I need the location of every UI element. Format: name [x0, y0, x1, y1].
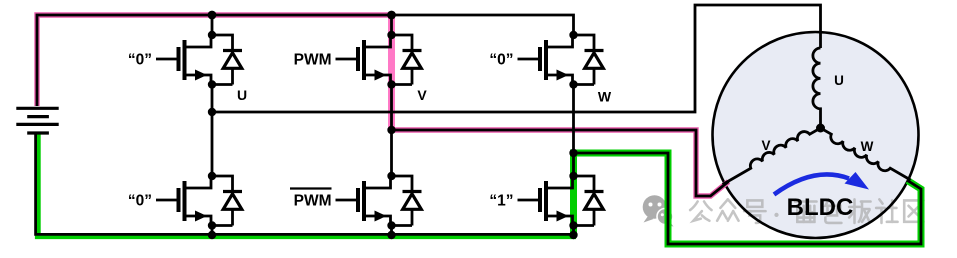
- body diode of Q6: cathode link: [574, 176, 595, 192]
- Q1 channel bar: [183, 40, 187, 80]
- Q4 source connection: [364, 216, 391, 226]
- transistor Q6 W low-side, gate "1": [518, 176, 604, 226]
- svg-text:“1”: “1”: [489, 193, 513, 210]
- Q6 drain node dot: [569, 172, 577, 180]
- node U junction dot: [208, 108, 216, 116]
- watermark text 公众号：面包板社区 (drawn as vector strokes): [690, 199, 923, 223]
- body diode of Q3: cathode link: [392, 35, 413, 51]
- junction dots on negative rail: [208, 231, 216, 239]
- svg-text:“0”: “0”: [128, 193, 152, 210]
- winding W (motor): [821, 128, 911, 180]
- Q1 gate bar: [177, 47, 181, 71]
- battery B1 plates: [16, 108, 58, 133]
- svg-text:W: W: [598, 89, 612, 105]
- body diode of Q1: anode link: [231, 70, 234, 85]
- svg-text:V: V: [761, 138, 770, 153]
- rotation arrow: [774, 174, 849, 194]
- Q4 gate lead: [336, 199, 360, 202]
- wire: motor W winding return: [574, 153, 922, 244]
- Q3 gate lead: [336, 58, 360, 61]
- highlighted current path (pink): battery+ to V phase winding: [37, 15, 392, 106]
- body diode of Q5: triangle: [585, 53, 604, 69]
- Q1 source connection: [185, 75, 212, 85]
- transistor Q5 W high-side, gate "0": [518, 35, 604, 85]
- body diode of Q5: cathode link: [574, 35, 595, 51]
- Q3 gate bar: [356, 47, 360, 71]
- Q5 drain connection: [546, 35, 573, 47]
- body diode of Q6: anode link: [593, 211, 596, 226]
- body diode of Q3: triangle: [403, 53, 422, 69]
- wire: U phase line to motor U winding: [212, 5, 821, 112]
- body diode of Q4: anode link: [411, 211, 414, 226]
- Q2 source node dot: [208, 221, 216, 229]
- body diode of Q3: anode link: [411, 70, 414, 85]
- Q6 gate lead: [518, 199, 542, 202]
- Q5 gate lead: [518, 58, 542, 61]
- body diode of Q4: triangle: [403, 194, 422, 210]
- motor star point junction: [816, 124, 825, 133]
- Q5 source connection: [546, 75, 573, 85]
- transistor Q3 V high-side, gate PWM: [336, 35, 422, 85]
- Q4 source arrow: [375, 211, 387, 222]
- Q2 channel bar: [183, 181, 187, 221]
- body diode of Q2: cathode link: [212, 176, 233, 192]
- highlighted current path (green): W winding back to battery-: [574, 153, 922, 244]
- body diode of Q1: cathode bar: [223, 49, 242, 52]
- Q3 drain connection: [364, 35, 391, 47]
- wire: Q4 source to diode anode: [392, 224, 413, 227]
- Q2 source arrow: [195, 211, 207, 222]
- node W junction dot: [569, 149, 577, 157]
- wire: V phase output to motor V winding: [392, 130, 729, 196]
- Q6 channel bar: [544, 181, 548, 221]
- body diode of Q2: triangle: [223, 194, 242, 210]
- Q2 source connection: [185, 216, 212, 226]
- body diode of Q2: cathode bar: [223, 190, 242, 193]
- body diode of Q4: cathode link: [392, 176, 413, 192]
- svg-text:PWM: PWM: [294, 193, 332, 210]
- svg-text:U: U: [237, 87, 247, 103]
- Q3 channel bar: [362, 40, 366, 80]
- transistor Q1 U high-side, gate "0": [156, 35, 242, 85]
- Q4 channel bar: [362, 181, 366, 221]
- Q5 drain node dot: [569, 31, 577, 39]
- body diode of Q4: cathode bar: [403, 190, 422, 193]
- wire: U leg source to U node to lower drain: [211, 85, 214, 177]
- wire: W leg source to W node to lower drain: [572, 85, 575, 177]
- Q5 source node dot: [569, 80, 577, 88]
- Q4 drain connection: [364, 176, 391, 188]
- motor body outline: [713, 32, 919, 238]
- Q1 source arrow: [195, 70, 207, 81]
- Q5 gate bar: [538, 47, 542, 71]
- wire: U high-side drain lead: [211, 15, 214, 35]
- Q3 drain node dot: [387, 31, 395, 39]
- wire: negative rail (battery- along bottom): [36, 133, 574, 234]
- Q3 source node dot: [387, 80, 395, 88]
- wire: V high-side drain lead: [390, 15, 393, 35]
- transistor Q4 V low-side, gate PWM inverted: [336, 176, 422, 226]
- Q6 gate bar: [538, 188, 542, 212]
- svg-text:V: V: [417, 87, 427, 103]
- Q2 gate lead: [156, 199, 180, 202]
- wire: Q5 source to diode anode: [574, 83, 595, 86]
- body diode of Q2: anode link: [231, 211, 234, 226]
- Q6 source arrow: [557, 211, 569, 222]
- Q3 source arrow: [375, 70, 387, 81]
- Q6 drain connection: [546, 176, 573, 188]
- body diode of Q6: cathode bar: [585, 190, 604, 193]
- Q6 source node dot: [569, 221, 577, 229]
- Q6 source connection: [546, 216, 573, 226]
- wire: positive rail (battery+ to top rail, ends at W leg): [37, 15, 574, 106]
- Q1 drain node dot: [208, 31, 216, 39]
- Q4 source node dot: [387, 221, 395, 229]
- wire: Q2 source to diode anode: [212, 224, 233, 227]
- junction dots on positive rail: [208, 11, 217, 20]
- body diode of Q5: anode link: [593, 70, 596, 85]
- wire: Q1 source to diode anode: [212, 83, 233, 86]
- wire: Q3 source to diode anode: [392, 83, 413, 86]
- Q3 source connection: [364, 75, 391, 85]
- node V junction dot: [387, 126, 395, 134]
- Q5 source arrow: [557, 70, 569, 81]
- Q4 gate bar: [356, 188, 360, 212]
- wire: Q6 source to diode anode: [574, 224, 595, 227]
- svg-text:U: U: [834, 73, 844, 88]
- watermark logo (chat bubbles): [643, 195, 674, 226]
- svg-text:PWM: PWM: [294, 52, 332, 69]
- body diode of Q1: cathode link: [212, 35, 233, 51]
- Q4 drain node dot: [387, 172, 395, 180]
- winding U (motor): [813, 48, 821, 128]
- winding V (motor): [723, 128, 821, 185]
- Q1 source node dot: [208, 80, 216, 88]
- wire: V leg source to V node to lower drain: [390, 85, 393, 177]
- body diode of Q3: cathode bar: [403, 49, 422, 52]
- body diode of Q6: triangle: [585, 194, 604, 210]
- transistor Q2 U low-side, gate "0": [156, 176, 242, 226]
- body diode of Q1: triangle: [223, 53, 242, 69]
- Q2 drain connection: [185, 176, 212, 188]
- Q2 gate bar: [177, 188, 181, 212]
- wire: low-side source leads to negative rail: [211, 226, 214, 236]
- svg-text:“0”: “0”: [489, 52, 513, 69]
- Q1 drain connection: [185, 35, 212, 47]
- svg-text:“0”: “0”: [128, 52, 152, 69]
- svg-text:W: W: [861, 139, 874, 154]
- svg-text:BLDC: BLDC: [787, 194, 854, 221]
- Q2 drain node dot: [208, 172, 216, 180]
- BLDC motor body M1: [713, 32, 919, 238]
- body diode of Q5: cathode bar: [585, 49, 604, 52]
- Q5 channel bar: [544, 40, 548, 80]
- Q1 gate lead: [156, 58, 180, 61]
